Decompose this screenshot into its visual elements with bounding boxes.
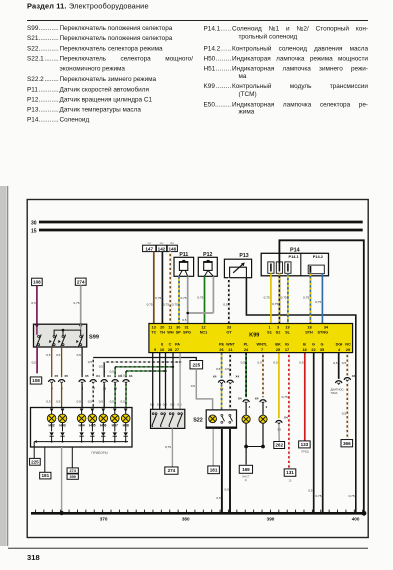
svg-text:0,75: 0,75 [264, 296, 270, 300]
svg-text:0,5: 0,5 [308, 489, 313, 493]
svg-text:X4: X4 [255, 397, 259, 401]
svg-text:WNT: WNT [226, 343, 235, 347]
svg-text:PL: PL [244, 343, 250, 347]
svg-text:0,75: 0,75 [272, 302, 278, 306]
svg-text:131: 131 [286, 470, 294, 475]
svg-text:30: 30 [31, 220, 37, 226]
svg-text:0,5: 0,5 [99, 400, 104, 404]
svg-text:0,5: 0,5 [224, 488, 229, 492]
svg-text:0,5: 0,5 [241, 361, 246, 365]
svg-text:0,75: 0,75 [349, 494, 355, 498]
svg-text:Раздел 11. Электрооборудование: Раздел 11. Электрооборудование [27, 2, 149, 11]
svg-text:4): 4) [245, 478, 247, 482]
svg-text:7: 7 [261, 348, 263, 352]
svg-text:0,5: 0,5 [223, 303, 228, 307]
svg-text:P14: P14 [290, 248, 300, 254]
svg-text:0,75: 0,75 [172, 303, 178, 307]
svg-text:0,5: 0,5 [88, 400, 93, 404]
svg-text:0,5: 0,5 [182, 318, 187, 322]
svg-text:C: C [169, 343, 172, 347]
svg-text:P12...........Датчик вращения: P12...........Датчик вращения цилиндра C… [27, 97, 153, 104]
svg-text:262: 262 [275, 443, 283, 448]
svg-text:0,5: 0,5 [77, 353, 82, 357]
svg-text:(TCM): (TCM) [239, 91, 257, 98]
svg-text:0,5: 0,5 [120, 400, 125, 404]
svg-text:0,5: 0,5 [110, 369, 115, 373]
svg-text:NC1: NC1 [200, 330, 208, 334]
svg-text:0,75: 0,75 [315, 300, 321, 304]
svg-text:B: B [303, 343, 306, 347]
svg-text:X4: X4 [107, 374, 111, 378]
svg-text:17: 17 [285, 348, 289, 352]
svg-text:WH: WH [167, 330, 174, 334]
svg-text:274: 274 [70, 469, 77, 473]
svg-text:181: 181 [41, 473, 49, 478]
svg-text:0,75: 0,75 [282, 395, 288, 399]
svg-text:0,5: 0,5 [342, 361, 347, 365]
svg-text:0,75: 0,75 [73, 301, 79, 305]
svg-text:BK: BK [275, 343, 281, 347]
svg-text:DGI: DGI [336, 343, 343, 347]
svg-text:OT: OT [226, 330, 232, 334]
svg-text:жима: жима [239, 109, 255, 116]
svg-text:K99: K99 [249, 333, 259, 339]
svg-text:0,75: 0,75 [281, 296, 287, 300]
svg-text:0,75: 0,75 [163, 303, 169, 307]
svg-text:S22.2........Переключатель зим: S22.2........Переключатель зимнего режим… [27, 76, 157, 83]
svg-text:390: 390 [267, 517, 275, 522]
svg-text:P14...........Соленоид: P14...........Соленоид [27, 117, 89, 124]
svg-text:G: G [312, 343, 315, 347]
svg-text:27: 27 [175, 348, 179, 352]
svg-text:147: 147 [145, 246, 153, 251]
svg-text:0,5: 0,5 [191, 384, 196, 388]
svg-text:25: 25 [276, 348, 280, 352]
svg-text:31: 31 [184, 326, 188, 330]
svg-text:366: 366 [343, 441, 351, 446]
svg-text:G: G [321, 343, 324, 347]
svg-text:P13...........Датчик температу: P13...........Датчик температуры масла [27, 107, 141, 114]
svg-text:SPG: SPG [183, 330, 191, 334]
svg-text:35: 35 [320, 348, 324, 352]
svg-text:S1: S1 [267, 330, 272, 334]
svg-text:ПРИБОРЫ: ПРИБОРЫ [91, 451, 107, 455]
svg-text:0,75: 0,75 [315, 494, 321, 498]
svg-text:экономичного режима: экономичного режима [60, 66, 126, 73]
svg-text:9: 9 [154, 348, 156, 352]
svg-text:P14.1: P14.1 [289, 254, 300, 259]
svg-text:26: 26 [219, 348, 223, 352]
svg-text:15: 15 [31, 228, 37, 234]
svg-text:0,5: 0,5 [88, 360, 93, 364]
svg-text:133: 133 [301, 442, 309, 447]
svg-text:TC: TC [151, 330, 156, 334]
svg-text:33: 33 [227, 326, 231, 330]
svg-text:400: 400 [352, 517, 360, 522]
svg-text:0,5: 0,5 [120, 374, 125, 378]
svg-text:29: 29 [346, 348, 350, 352]
svg-text:0,5: 0,5 [46, 353, 51, 357]
svg-text:SP: SP [176, 330, 182, 334]
svg-text:S22: S22 [193, 418, 203, 424]
svg-text:108: 108 [33, 280, 41, 285]
svg-text:P12: P12 [203, 252, 212, 258]
svg-text:P14.2: P14.2 [313, 254, 324, 259]
svg-text:0,5: 0,5 [333, 361, 338, 365]
svg-text:S22.1........Переключатель сел: S22.1........Переключатель селектора мощ… [27, 56, 193, 63]
svg-text:P14.2.....Контрольный соленоид: P14.2.....Контрольный соленоид давления … [204, 44, 369, 52]
svg-text:Vw: Vw [147, 241, 151, 245]
svg-text:18: 18 [307, 326, 311, 330]
svg-text:274: 274 [77, 279, 85, 284]
svg-text:0,75: 0,75 [180, 296, 186, 300]
svg-text:X4: X4 [284, 416, 288, 420]
svg-text:0,5: 0,5 [299, 361, 304, 365]
svg-text:ТИКА: ТИКА [331, 391, 338, 395]
svg-text:146: 146 [168, 246, 176, 251]
svg-text:28: 28 [168, 348, 172, 352]
svg-text:E50.........Индикаторная лампо: E50.........Индикаторная лампочка селект… [204, 101, 369, 108]
svg-text:181: 181 [210, 467, 218, 472]
svg-text:0,5: 0,5 [342, 412, 347, 416]
svg-text:H50........Индикаторая лампочк: H50........Индикаторая лампочка режима м… [204, 55, 369, 62]
svg-text:225: 225 [192, 362, 200, 367]
svg-text:S21...........Переключатель по: S21...........Переключатель положения се… [27, 35, 173, 42]
svg-text:0,5: 0,5 [77, 400, 82, 404]
svg-text:12: 12 [201, 326, 205, 330]
svg-text:0,5: 0,5 [56, 400, 61, 404]
svg-text:ма: ма [239, 73, 247, 80]
svg-text:225: 225 [31, 459, 39, 464]
svg-text:0,5: 0,5 [273, 361, 278, 365]
svg-text:0,75: 0,75 [197, 296, 203, 300]
svg-text:1: 1 [268, 326, 270, 330]
svg-text:K99........Контрольный модуль: K99........Контрольный модуль трансмисси… [204, 82, 369, 90]
svg-text:P11: P11 [179, 252, 188, 258]
svg-text:399: 399 [70, 475, 76, 479]
svg-text:0,5: 0,5 [46, 400, 51, 404]
svg-text:ПРЕД: ПРЕД [301, 449, 309, 453]
svg-text:X4: X4 [96, 374, 100, 378]
svg-text:13: 13 [152, 326, 156, 330]
svg-text:P11...........Датчик скоростей: P11...........Датчик скоростей автомобил… [27, 86, 149, 94]
svg-text:11: 11 [168, 326, 172, 330]
svg-text:H51........Индикаторная лампоч: H51........Индикаторная лампочка зимнего… [204, 65, 369, 72]
svg-text:X5: X5 [55, 374, 59, 378]
svg-text:19: 19 [285, 326, 289, 330]
svg-text:Sw: Sw [160, 241, 164, 245]
svg-text:0,75: 0,75 [155, 296, 161, 300]
svg-text:0,5: 0,5 [56, 353, 61, 357]
svg-text:S99...........Переключатель по: S99...........Переключатель положения се… [27, 25, 173, 32]
svg-text:WNTL: WNTL [257, 343, 269, 347]
svg-text:0,5: 0,5 [32, 361, 37, 365]
svg-text:трольный соленоид: трольный соленоид [239, 32, 298, 40]
svg-text:20: 20 [160, 326, 164, 330]
svg-text:380: 380 [182, 517, 190, 522]
svg-text:318: 318 [27, 553, 40, 562]
svg-text:NC: NC [345, 343, 351, 347]
svg-text:X4: X4 [236, 374, 240, 378]
svg-text:S22...........Переключатель се: S22...........Переключатель селектора ре… [27, 46, 163, 53]
svg-text:142: 142 [158, 246, 166, 251]
svg-text:SL: SL [285, 330, 291, 334]
svg-text:0,75: 0,75 [147, 303, 153, 307]
svg-text:370: 370 [100, 517, 108, 522]
svg-text:10: 10 [160, 348, 164, 352]
svg-text:0,5: 0,5 [225, 367, 230, 371]
svg-text:ДИАГНОС-: ДИАГНОС- [331, 387, 345, 391]
svg-text:0,75: 0,75 [165, 445, 171, 449]
svg-text:STNG: STNG [318, 330, 329, 334]
svg-text:108: 108 [32, 378, 40, 383]
svg-text:X4: X4 [352, 374, 356, 378]
svg-text:STH: STH [305, 330, 313, 334]
svg-text:274: 274 [168, 468, 176, 473]
svg-text:S2: S2 [276, 330, 281, 334]
svg-text:Bw: Bw [170, 241, 174, 245]
svg-text:PE: PE [219, 343, 225, 347]
svg-text:22: 22 [311, 348, 315, 352]
svg-text:0,5: 0,5 [257, 361, 262, 365]
svg-text:X4: X4 [213, 374, 217, 378]
svg-text:S99: S99 [89, 335, 99, 341]
svg-text:21: 21 [228, 348, 232, 352]
svg-text:0,5: 0,5 [99, 365, 104, 369]
svg-text:0,5: 0,5 [216, 367, 221, 371]
svg-text:X4: X4 [129, 374, 133, 378]
svg-text:8: 8 [161, 343, 163, 347]
svg-text:X5: X5 [85, 374, 89, 378]
svg-text:169: 169 [242, 467, 250, 472]
svg-text:30: 30 [176, 326, 180, 330]
svg-text:IG: IG [285, 343, 289, 347]
svg-text:TH: TH [160, 330, 165, 334]
svg-text:0,5: 0,5 [110, 400, 115, 404]
svg-text:P13: P13 [239, 253, 248, 259]
svg-text:0,5: 0,5 [216, 496, 221, 500]
svg-text:X5: X5 [64, 374, 68, 378]
svg-text:P14.1.....Соленоид №1 и №2/ Ст: P14.1.....Соленоид №1 и №2/ Стопорный ко… [204, 25, 369, 33]
svg-text:X4: X4 [238, 397, 242, 401]
svg-text:PA: PA [175, 343, 180, 347]
svg-text:0,75: 0,75 [303, 296, 309, 300]
svg-text:18: 18 [302, 348, 306, 352]
svg-text:0,5: 0,5 [31, 301, 36, 305]
svg-text:3: 3 [277, 326, 279, 330]
